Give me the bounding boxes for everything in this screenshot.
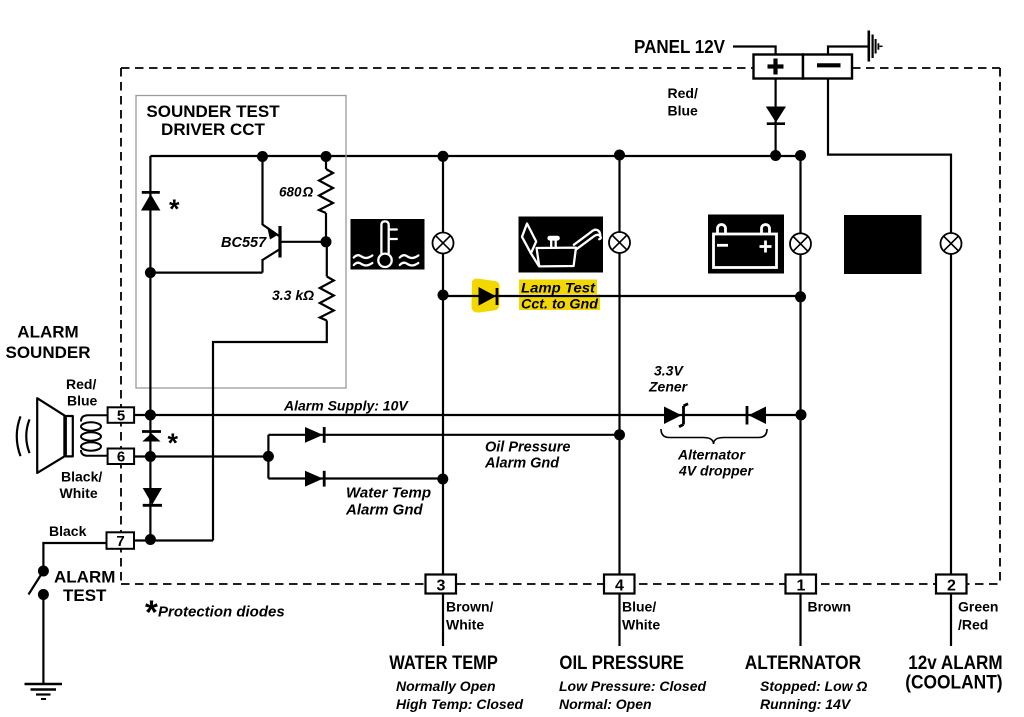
oil pressure vertical wire xyxy=(618,156,620,646)
lamp (12v alarm) xyxy=(941,233,962,254)
svg-text:ALARM: ALARM xyxy=(54,568,115,587)
svg-text:DRIVER CCT: DRIVER CCT xyxy=(161,120,266,139)
battery PANEL 12V: plus box xyxy=(754,55,804,79)
svg-text:*: * xyxy=(145,594,158,631)
svg-text:Alarm Supply: 10V: Alarm Supply: 10V xyxy=(283,398,409,414)
svg-text:ALARM: ALARM xyxy=(17,323,78,342)
svg-text:Blue: Blue xyxy=(668,103,699,119)
svg-text:Oil Pressure: Oil Pressure xyxy=(485,440,570,456)
svg-text:TEST: TEST xyxy=(63,586,107,605)
svg-text:Normally Open: Normally Open xyxy=(396,678,496,694)
svg-text:*: * xyxy=(168,428,179,458)
wire ground bus from minus xyxy=(828,79,951,647)
svg-text:BC557: BC557 xyxy=(221,235,267,251)
svg-text:3.3 kΩ: 3.3 kΩ xyxy=(272,287,314,303)
speaker (alarm sounder) xyxy=(37,398,73,473)
lamp (water temp) xyxy=(433,233,454,254)
svg-text:White: White xyxy=(622,617,660,633)
diode (pin6-pin7, pointing down) xyxy=(143,488,162,505)
wire oil pressure alarm gnd xyxy=(268,434,619,436)
wire black to switch xyxy=(43,543,106,571)
alternator vertical wire xyxy=(799,156,801,646)
svg-text:Brown/: Brown/ xyxy=(446,599,494,615)
svg-text:1: 1 xyxy=(797,578,806,595)
svg-text:PANEL 12V: PANEL 12V xyxy=(634,37,725,57)
icon water temp warning xyxy=(351,219,425,270)
svg-text:SOUNDER TEST: SOUNDER TEST xyxy=(146,102,280,121)
diode (alternator dropper, pointing left) xyxy=(749,407,767,425)
svg-text:White: White xyxy=(446,617,484,633)
wire left rail of driver cct xyxy=(149,156,151,415)
lamp (alternator) xyxy=(790,233,811,254)
diode (water gnd OR) xyxy=(305,471,323,487)
svg-text:ALTERNATOR: ALTERNATOR xyxy=(745,652,861,674)
svg-text:4: 4 xyxy=(615,578,624,595)
terminal box 1 xyxy=(786,575,817,594)
coil (sounder) xyxy=(81,415,108,456)
icon battery warning xyxy=(708,215,784,274)
pin box 5 xyxy=(108,407,135,423)
wire lamp test line xyxy=(443,295,801,297)
svg-text:7: 7 xyxy=(116,533,124,550)
svg-text:WATER TEMP: WATER TEMP xyxy=(389,652,498,674)
svg-text:Zener: Zener xyxy=(648,379,689,395)
resistor 3.3k xyxy=(326,242,328,277)
svg-text:Brown: Brown xyxy=(808,599,852,615)
icon 12v alarm (blank) xyxy=(844,215,922,274)
wire water temp alarm gnd xyxy=(268,477,443,479)
battery: minus box xyxy=(803,55,852,79)
svg-text:3.3V: 3.3V xyxy=(654,363,684,379)
svg-text:Blue: Blue xyxy=(67,393,98,409)
svg-text:3: 3 xyxy=(437,578,446,595)
terminal box 2 xyxy=(936,575,967,594)
wire from PANEL 12V label to battery xyxy=(733,47,776,56)
svg-text:/Red: /Red xyxy=(958,617,988,633)
svg-text:Stopped: Low Ω: Stopped: Low Ω xyxy=(760,678,867,694)
svg-text:2: 2 xyxy=(947,578,956,595)
wire emitter drop xyxy=(261,156,263,225)
svg-text:Alarm Gnd: Alarm Gnd xyxy=(345,502,424,519)
svg-text:(COOLANT): (COOLANT) xyxy=(905,672,1002,694)
wire switch to ground xyxy=(42,595,44,684)
wire pin6 to OR node xyxy=(134,455,268,457)
brace (dropper) xyxy=(661,429,767,444)
svg-text:680 Ω: 680 Ω xyxy=(279,185,314,200)
highlight marks (lamp test) xyxy=(472,279,500,313)
svg-text:Red/: Red/ xyxy=(668,85,698,101)
wire alarm supply 10V xyxy=(150,414,801,416)
pin box 7 xyxy=(107,532,135,549)
svg-text:Water Temp: Water Temp xyxy=(346,485,431,502)
svg-text:4V dropper: 4V dropper xyxy=(678,463,754,479)
svg-text:Protection diodes: Protection diodes xyxy=(158,604,285,621)
wire from + down to diode and bus xyxy=(774,79,776,156)
transistor Q1 BC557 xyxy=(263,225,327,273)
ground (alarm test) xyxy=(25,684,63,699)
wire battery minus to top ground xyxy=(828,47,868,56)
svg-text:Running: 14V: Running: 14V xyxy=(760,696,852,712)
water temp vertical wire xyxy=(442,156,444,646)
wire collector to left rail xyxy=(150,272,262,274)
svg-text:Red/: Red/ xyxy=(66,376,96,392)
diode protection (upper, in driver cct) xyxy=(142,191,160,194)
svg-text:Cct. to Gnd: Cct. to Gnd xyxy=(521,296,598,312)
wire pin5 to supply junction xyxy=(134,414,150,416)
svg-text:Green: Green xyxy=(958,599,998,615)
wire main 10V bus xyxy=(150,155,800,157)
svg-text:Lamp Test: Lamp Test xyxy=(521,280,596,296)
sound waves xyxy=(17,416,30,456)
svg-text:Alarm Gnd: Alarm Gnd xyxy=(484,456,560,472)
OR node vertical xyxy=(267,435,269,479)
diode D (panel feed) xyxy=(766,107,786,123)
wire pin5 rail down to pin7 xyxy=(149,415,151,540)
lamp (oil) xyxy=(609,232,630,253)
dashed enclosure border xyxy=(121,68,1000,584)
diode protection (pin5-pin6) xyxy=(142,430,161,433)
svg-text:6: 6 xyxy=(117,449,125,466)
svg-text:White: White xyxy=(60,485,98,501)
pin box 6 xyxy=(108,449,135,465)
diode lamp test xyxy=(479,287,497,306)
diode (oil gnd OR) xyxy=(305,427,323,443)
svg-text:5: 5 xyxy=(117,408,125,425)
svg-text:Low Pressure: Closed: Low Pressure: Closed xyxy=(559,678,706,694)
sounder test driver box xyxy=(136,96,346,389)
svg-text:High Temp: Closed: High Temp: Closed xyxy=(396,696,523,712)
ground (top right, sideways) xyxy=(869,31,883,62)
svg-text:Alternator: Alternator xyxy=(677,447,746,463)
svg-text:SOUNDER: SOUNDER xyxy=(5,343,90,362)
icon oil pressure warning xyxy=(519,217,604,273)
wire pin7 node xyxy=(134,539,213,541)
resistor 680 ohm xyxy=(325,156,327,169)
svg-text:Normal: Open: Normal: Open xyxy=(559,696,652,712)
terminal box 3 xyxy=(426,575,457,594)
zener 3.3V xyxy=(664,407,682,425)
svg-text:*: * xyxy=(169,194,180,224)
svg-text:Blue/: Blue/ xyxy=(622,599,656,615)
svg-text:Black: Black xyxy=(49,523,87,539)
terminal box 4 xyxy=(604,575,635,594)
wire 3.3k to pin7 line xyxy=(213,321,327,541)
switch alarm test xyxy=(29,571,44,595)
svg-text:Black/: Black/ xyxy=(61,469,102,485)
svg-text:OIL PRESSURE: OIL PRESSURE xyxy=(559,652,684,674)
